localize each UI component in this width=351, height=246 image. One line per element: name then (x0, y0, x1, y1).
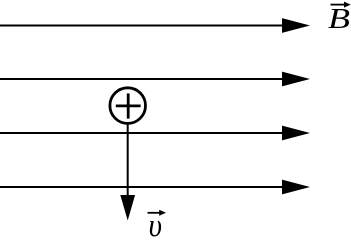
svg-text:B: B (328, 3, 350, 35)
